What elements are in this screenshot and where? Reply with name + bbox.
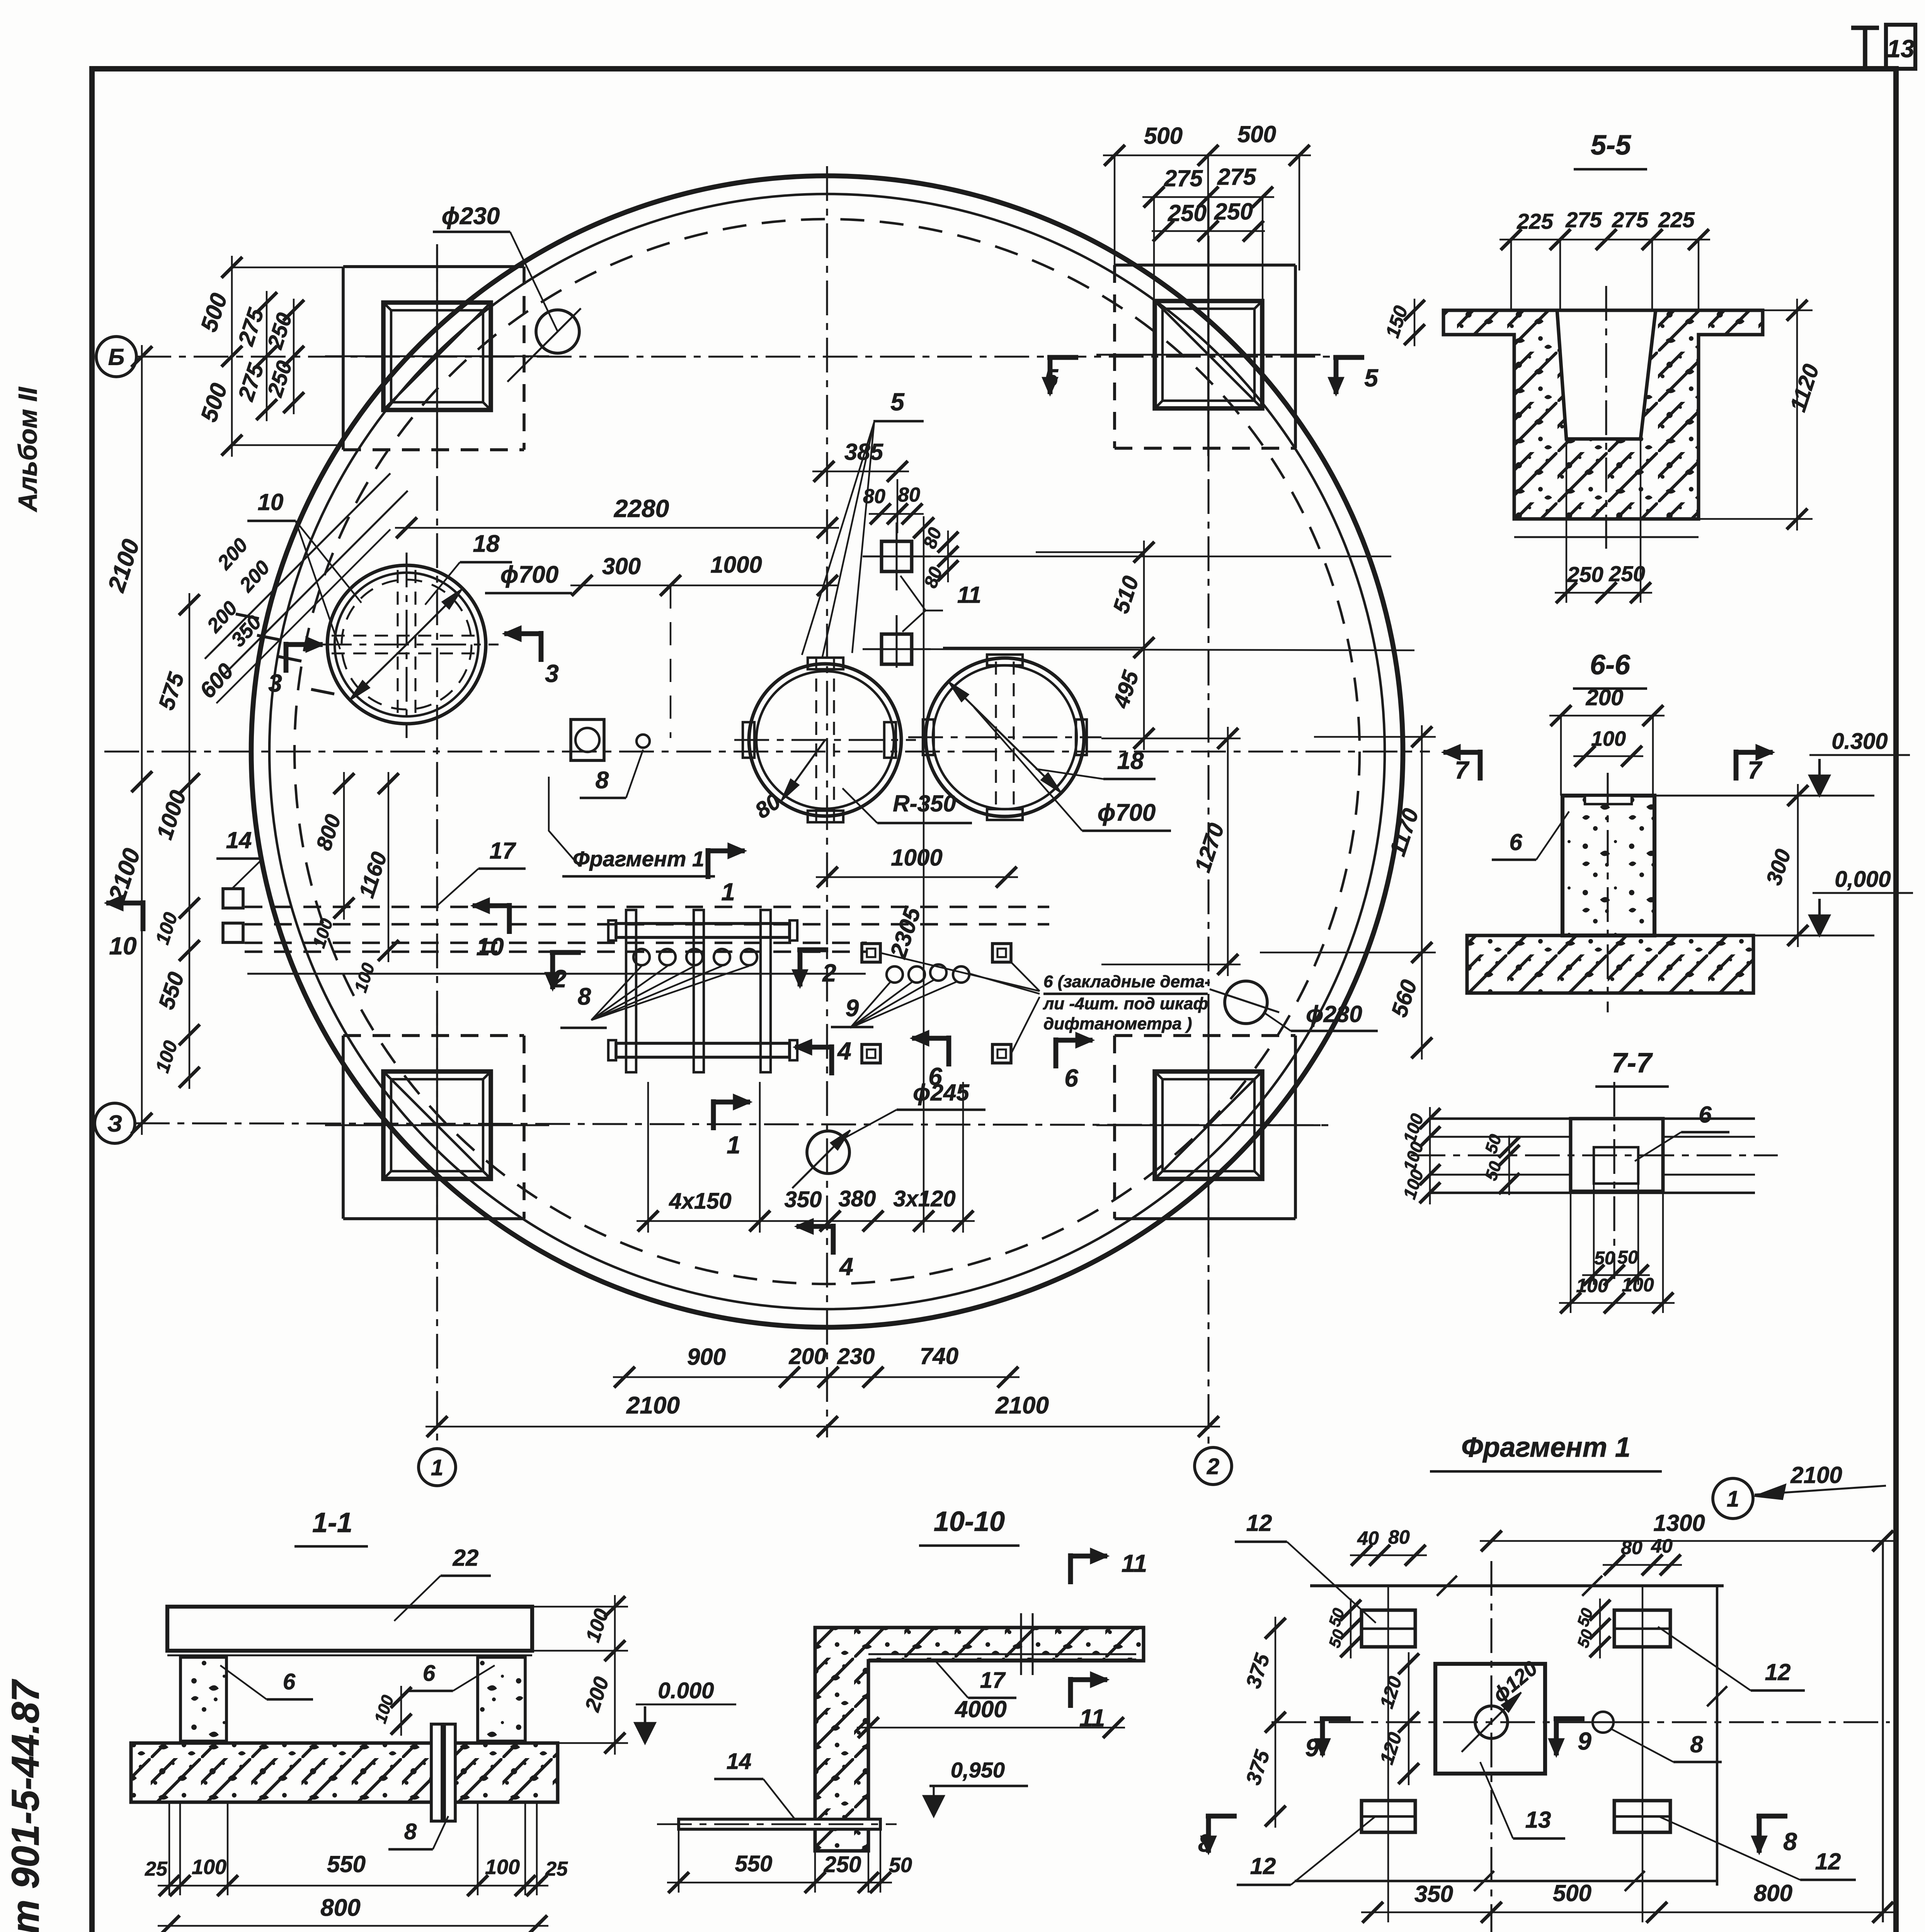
axis З line bbox=[135, 1123, 1333, 1125]
1-1 top slab bbox=[167, 1607, 532, 1651]
dim 510 495 vertical bbox=[1143, 541, 1145, 750]
bolt square 11 lower bbox=[882, 634, 912, 664]
dim 500 500 top pad bbox=[1103, 155, 1311, 156]
svg-text:4: 4 bbox=[837, 1037, 851, 1065]
fragment dim 120 120 rotated bbox=[1408, 1652, 1409, 1785]
svg-text:225: 225 bbox=[1658, 207, 1695, 232]
fragment embed plate top-left (12) bbox=[1362, 1610, 1415, 1647]
10-10 bottom dims 550 250 50 bbox=[667, 1882, 892, 1883]
svg-text:300: 300 bbox=[602, 553, 641, 579]
6-6 level 0.000 bbox=[1818, 899, 1821, 935]
embed circle d230 bottom-right bbox=[1225, 981, 1267, 1024]
svg-text:7: 7 bbox=[1455, 756, 1470, 784]
axis 1 line bbox=[436, 247, 438, 1447]
5-5 dim 250 250 bottom bbox=[1555, 592, 1652, 594]
svg-text:13: 13 bbox=[1887, 35, 1914, 63]
6-6 level 0.300 bbox=[1818, 759, 1821, 796]
svg-text:80: 80 bbox=[1621, 1537, 1642, 1558]
fragment slab top edge bbox=[1310, 1584, 1724, 1587]
cut flag 2 right bbox=[797, 947, 828, 952]
axis 1 circle bbox=[419, 1449, 456, 1486]
fragment slab right edge bbox=[1716, 1586, 1718, 1886]
svg-text:8: 8 bbox=[1783, 1828, 1797, 1855]
1-1 left pedestal concrete bbox=[180, 1657, 226, 1741]
plan vertical centerline bbox=[826, 166, 828, 1437]
5-5 dim 1120 right bbox=[1796, 299, 1798, 531]
svg-text:1: 1 bbox=[1727, 1486, 1739, 1512]
svg-text:ли -4шт. под шкаф: ли -4шт. под шкаф bbox=[1043, 994, 1208, 1013]
fragment centerline vertical bbox=[1490, 1561, 1492, 1932]
svg-text:500: 500 bbox=[1553, 1880, 1591, 1906]
svg-text:З: З bbox=[107, 1111, 123, 1137]
1-1 bottom dim chain bbox=[158, 1885, 548, 1886]
svg-text:25: 25 bbox=[145, 1858, 168, 1880]
sheet number box bbox=[1863, 27, 1867, 69]
cut flag 2 left bbox=[550, 950, 581, 955]
7-7 left dim 100x4 bbox=[1429, 1107, 1431, 1204]
dim 1170 560 vertical bbox=[1421, 725, 1423, 1060]
dim 275 275 top pad bbox=[1142, 196, 1274, 198]
svg-text:2100: 2100 bbox=[1790, 1462, 1842, 1488]
hidden channel strip B bbox=[245, 942, 867, 944]
svg-text:500: 500 bbox=[1237, 121, 1276, 147]
svg-text:7: 7 bbox=[1748, 756, 1763, 784]
cut flag 3 right bbox=[539, 631, 544, 662]
svg-text:10: 10 bbox=[476, 933, 504, 961]
svg-text:0.300: 0.300 bbox=[1831, 729, 1888, 754]
svg-text:6: 6 bbox=[1699, 1102, 1712, 1128]
svg-text:0.000: 0.000 bbox=[658, 1678, 714, 1703]
fragment cut flag 8 right bbox=[1756, 1814, 1787, 1819]
dim 80 80 vertical (rotated) bbox=[947, 531, 949, 582]
svg-text:100: 100 bbox=[1622, 1274, 1654, 1296]
axis 2 line bbox=[1207, 193, 1209, 1446]
dim 900 200 230 740 bbox=[613, 1376, 1020, 1378]
fragment dim 375 375 rotated bbox=[1275, 1617, 1276, 1828]
fragment dim 80 40 bbox=[1603, 1564, 1682, 1566]
svg-text:80: 80 bbox=[898, 484, 920, 506]
svg-text:50: 50 bbox=[1617, 1247, 1638, 1268]
5-5 bottom edge bbox=[1514, 536, 1699, 538]
svg-text:6 (закладные дета-: 6 (закладные дета- bbox=[1043, 972, 1210, 991]
10-10 wall and slab hatched bbox=[815, 1628, 1144, 1851]
fragment bottom dims 350 500 800 bbox=[1361, 1912, 1894, 1913]
svg-text:100: 100 bbox=[192, 1855, 226, 1879]
dim 250 250 top pad bbox=[1152, 230, 1265, 232]
7-7 outer plate rect bbox=[1571, 1119, 1663, 1191]
dim 2100 2100 axis B-Z bbox=[141, 345, 143, 1135]
axis Б circle bbox=[96, 337, 136, 377]
svg-text:740: 740 bbox=[920, 1343, 958, 1369]
svg-text:275: 275 bbox=[1217, 164, 1257, 190]
right circle tabs bbox=[987, 655, 1023, 665]
svg-text:275: 275 bbox=[1565, 207, 1602, 232]
fragment embed plate top-right (12) bbox=[1614, 1610, 1670, 1647]
axis Б line bbox=[136, 355, 1333, 357]
plan outer foundation circle bbox=[251, 176, 1403, 1327]
svg-text:1000: 1000 bbox=[891, 845, 942, 871]
svg-text:100: 100 bbox=[485, 1855, 520, 1879]
fragment small circle 8 bbox=[1593, 1712, 1614, 1733]
bolt plate squares (pos 6) group bbox=[862, 944, 880, 962]
dim 275 275 left pad bbox=[266, 291, 267, 421]
svg-text:2: 2 bbox=[822, 959, 836, 987]
svg-text:Фрагмент 1: Фрагмент 1 bbox=[573, 847, 704, 871]
fragment cut flag 9 right bbox=[1554, 1716, 1585, 1721]
svg-text:50: 50 bbox=[889, 1854, 912, 1877]
cut flag 6 left bbox=[946, 1036, 951, 1066]
svg-text:Альбом II: Альбом II bbox=[13, 386, 43, 513]
svg-text:40: 40 bbox=[1651, 1535, 1673, 1557]
svg-text:3: 3 bbox=[545, 660, 559, 687]
svg-text:1: 1 bbox=[431, 1455, 443, 1480]
fragment axis circle 1 with 2100 arrow bbox=[1713, 1478, 1753, 1519]
small hole circle bbox=[637, 735, 650, 748]
fragment right vertical edge bbox=[1882, 1541, 1884, 1922]
svg-text:10-10: 10-10 bbox=[934, 1506, 1005, 1537]
svg-text:1: 1 bbox=[721, 878, 735, 906]
svg-text:2: 2 bbox=[1207, 1454, 1219, 1479]
svg-text:6: 6 bbox=[1064, 1064, 1078, 1092]
bolt square 11 upper bbox=[882, 541, 912, 571]
7-7 dim 50 50 bottom bbox=[1582, 1274, 1650, 1276]
5-5 dim 150 left bbox=[1414, 299, 1415, 346]
svg-text:800: 800 bbox=[320, 1895, 360, 1921]
svg-text:6: 6 bbox=[283, 1669, 296, 1694]
dim 1000 (center to right circle) bbox=[816, 876, 1018, 878]
svg-text:550: 550 bbox=[735, 1851, 773, 1876]
right manhole circle d700 bbox=[926, 658, 1084, 816]
1-1 dim 800 bbox=[158, 1925, 548, 1927]
6-6 cut flag 7 right bbox=[1734, 750, 1739, 781]
svg-text:100: 100 bbox=[1591, 727, 1626, 750]
embed circle d245 bbox=[807, 1131, 849, 1173]
axis 2 circle bbox=[1195, 1447, 1232, 1485]
fragment cut flag 8 left bbox=[1206, 1814, 1237, 1819]
detail square with circle (pos 8) bbox=[571, 719, 604, 760]
dim 500 500 left pad (vertical) bbox=[231, 256, 233, 457]
6-6 cut flag 7 left bbox=[1478, 750, 1483, 781]
cut flag 1 bottom bbox=[711, 1099, 716, 1130]
7-7 dim 100 100 bottom bbox=[1559, 1302, 1675, 1304]
fragment embed plate bottom-left (12) bbox=[1362, 1801, 1415, 1832]
dim 1270 vertical bbox=[1227, 727, 1229, 976]
svg-text:275: 275 bbox=[1612, 207, 1648, 232]
10-10 dim 4000 bbox=[857, 1727, 1125, 1728]
leaders to note 6 bbox=[880, 953, 1040, 991]
svg-text:550: 550 bbox=[327, 1851, 366, 1877]
svg-text:6-6: 6-6 bbox=[1590, 650, 1631, 680]
1-1 level 0.000 bbox=[644, 1706, 646, 1743]
svg-text:13: 13 bbox=[1525, 1807, 1551, 1833]
svg-text:8: 8 bbox=[1690, 1731, 1703, 1757]
6-6 dim 200 bbox=[1549, 715, 1665, 716]
svg-text:380: 380 bbox=[839, 1186, 876, 1211]
svg-text:250: 250 bbox=[1214, 199, 1253, 224]
svg-text:2100: 2100 bbox=[995, 1392, 1049, 1419]
svg-text:0,000: 0,000 bbox=[1835, 867, 1891, 892]
svg-text:ϕ230: ϕ230 bbox=[442, 203, 500, 230]
svg-text:100: 100 bbox=[1576, 1275, 1608, 1296]
pad Fm3 (bottom-left) bbox=[343, 1034, 524, 1037]
cut flag 4 top bbox=[829, 1044, 834, 1075]
radial dim lines top-left bbox=[205, 473, 390, 659]
cut flag 5 right bbox=[1333, 355, 1364, 360]
svg-text:1000: 1000 bbox=[710, 552, 762, 578]
fragment central hole d120 bbox=[1475, 1706, 1508, 1738]
5-5 dim 225 275 275 225 bbox=[1499, 239, 1710, 240]
svg-text:18: 18 bbox=[473, 531, 500, 557]
pad Fm2 (top-right) bbox=[1115, 264, 1295, 267]
svg-text:385: 385 bbox=[844, 439, 884, 465]
cut flag 10 right bbox=[507, 903, 512, 934]
svg-text:2100: 2100 bbox=[626, 1392, 680, 1419]
svg-text:3x120: 3x120 bbox=[893, 1186, 955, 1211]
6-6 dim 300 bbox=[1797, 784, 1799, 947]
7-7 inner plate rect bbox=[1594, 1147, 1638, 1184]
svg-text:900: 900 bbox=[687, 1344, 726, 1370]
strip end caps (pos 14) bbox=[223, 889, 243, 908]
svg-text:25: 25 bbox=[545, 1858, 568, 1880]
cut flag 3 left bbox=[284, 642, 289, 673]
bolt circles group 9 bbox=[887, 966, 903, 983]
svg-text:1-1: 1-1 bbox=[312, 1507, 352, 1538]
svg-text:350: 350 bbox=[785, 1187, 822, 1212]
fragment dim 50 50 right rotated bbox=[1599, 1599, 1601, 1658]
10-10 cut flag 11 top bbox=[1068, 1553, 1073, 1584]
1-1 dim 100 small bbox=[400, 1686, 402, 1736]
10-10 base plate 14 bbox=[679, 1819, 880, 1829]
5-5 concrete body hatched bbox=[1443, 310, 1763, 519]
cut flag 6 right bbox=[1054, 1037, 1059, 1068]
left manhole circle d700 bbox=[327, 565, 486, 724]
svg-text:40: 40 bbox=[1357, 1527, 1379, 1549]
fragment embed plate bottom-right (12) bbox=[1614, 1801, 1670, 1832]
cut flag 10 left bbox=[141, 900, 146, 931]
dim 385 bbox=[812, 471, 909, 472]
dim 2280 bbox=[395, 527, 839, 529]
svg-text:250: 250 bbox=[824, 1852, 861, 1877]
svg-text:4000: 4000 bbox=[955, 1696, 1006, 1722]
dim 800 1160 (vertical inside plan) bbox=[343, 772, 345, 920]
svg-text:Типовой проект 901-5-44.87: Типовой проект 901-5-44.87 bbox=[4, 1679, 47, 1932]
svg-text:18: 18 bbox=[1117, 748, 1144, 774]
svg-text:8: 8 bbox=[596, 767, 609, 794]
svg-text:3: 3 bbox=[268, 669, 282, 697]
svg-text:12: 12 bbox=[1765, 1659, 1791, 1685]
dim 2100 2100 bottom bbox=[426, 1426, 1220, 1427]
thin line under strips bbox=[247, 973, 866, 975]
fragment dim 50 50 left rotated bbox=[1350, 1599, 1351, 1658]
svg-text:5-5: 5-5 bbox=[1591, 130, 1631, 161]
dim 2305 vertical bbox=[923, 516, 924, 1233]
6-6 top plate bbox=[1585, 796, 1632, 804]
svg-text:10: 10 bbox=[258, 489, 284, 515]
fragment centerline horizontal bbox=[1271, 1721, 1890, 1723]
svg-text:80: 80 bbox=[863, 485, 885, 508]
dim 300 1000 bbox=[570, 585, 839, 586]
dim 4x150 350 380 3x120 bbox=[637, 1220, 975, 1222]
center circle right tab bbox=[884, 722, 896, 758]
svg-text:350: 350 bbox=[1414, 1881, 1453, 1907]
svg-text:9: 9 bbox=[1305, 1734, 1319, 1762]
6-6 ground slab hatched bbox=[1467, 935, 1753, 993]
svg-text:6: 6 bbox=[423, 1661, 436, 1686]
10-10 break marks bbox=[1020, 1613, 1022, 1675]
svg-text:12: 12 bbox=[1246, 1510, 1272, 1536]
svg-text:ϕ230: ϕ230 bbox=[1306, 1001, 1362, 1027]
svg-text:ϕ700: ϕ700 bbox=[500, 561, 558, 588]
svg-text:230: 230 bbox=[837, 1344, 875, 1369]
hidden channel strip A (pos 14/17) bbox=[245, 906, 1049, 908]
svg-text:250: 250 bbox=[1567, 562, 1603, 587]
6-6 dim 100 bbox=[1573, 755, 1643, 757]
svg-text:250: 250 bbox=[1608, 561, 1645, 586]
svg-text:12: 12 bbox=[1250, 1853, 1276, 1879]
10-10 cut flag 11 bottom bbox=[1068, 1677, 1073, 1708]
svg-text:11-11: 11-11 bbox=[911, 1930, 975, 1932]
1-1 anchor plates 8 bbox=[431, 1724, 442, 1821]
svg-text:250: 250 bbox=[1168, 200, 1207, 226]
plan horizontal centerline bbox=[104, 750, 1430, 752]
cut flag 4 bottom bbox=[831, 1224, 836, 1255]
svg-text:11: 11 bbox=[957, 582, 981, 608]
svg-text:17: 17 bbox=[490, 838, 516, 864]
svg-text:275: 275 bbox=[1164, 165, 1203, 191]
center circle top tab bbox=[808, 658, 843, 669]
svg-text:Б: Б bbox=[108, 344, 124, 370]
svg-text:22: 22 bbox=[453, 1545, 479, 1571]
svg-text:9: 9 bbox=[846, 995, 859, 1022]
center circle bottom tab bbox=[808, 811, 843, 822]
svg-text:12: 12 bbox=[1815, 1849, 1841, 1874]
center pipe circle R350 bbox=[749, 664, 901, 816]
fragment central plate 13 bbox=[1435, 1664, 1545, 1774]
cut flag 1 top bbox=[706, 848, 711, 879]
svg-text:800: 800 bbox=[1754, 1880, 1792, 1906]
fragment dim 40 80 bbox=[1350, 1554, 1427, 1556]
fragment bottom edge bbox=[1295, 1880, 1717, 1882]
dim 250 250 left pad bbox=[293, 299, 294, 414]
svg-text:10: 10 bbox=[109, 932, 136, 960]
svg-text:5: 5 bbox=[890, 388, 905, 416]
6-6 pedestal concrete bbox=[1562, 796, 1654, 935]
svg-text:9: 9 bbox=[1578, 1727, 1591, 1755]
pad Fm4 (bottom-right) bbox=[1115, 1034, 1295, 1037]
svg-text:7-7: 7-7 bbox=[1612, 1048, 1653, 1078]
cut flag 5 left bbox=[1047, 355, 1078, 360]
1-1 right pedestal concrete bbox=[478, 1657, 525, 1741]
axis З circle bbox=[95, 1103, 135, 1143]
svg-text:11: 11 bbox=[1122, 1549, 1147, 1577]
svg-text:2280: 2280 bbox=[614, 495, 669, 522]
svg-text:6: 6 bbox=[928, 1063, 942, 1090]
svg-text:4: 4 bbox=[839, 1253, 853, 1281]
plan inner edge circle bbox=[269, 194, 1385, 1309]
svg-text:Фрагмент 1: Фрагмент 1 bbox=[1461, 1432, 1631, 1463]
10-10 slab liner 17 bbox=[868, 1653, 1136, 1655]
center circle left tab bbox=[743, 722, 754, 758]
svg-text:5: 5 bbox=[1044, 364, 1059, 392]
thin lines from bolt squares bbox=[912, 556, 1391, 557]
1-1 ground slab hatched bbox=[131, 1743, 558, 1802]
fragment cut flag 9 left bbox=[1320, 1716, 1351, 1721]
svg-text:дифтанометра ): дифтанометра ) bbox=[1043, 1014, 1192, 1033]
svg-text:8: 8 bbox=[1198, 1829, 1212, 1857]
svg-text:8: 8 bbox=[578, 983, 591, 1010]
svg-text:200: 200 bbox=[789, 1344, 827, 1369]
svg-text:ϕ700: ϕ700 bbox=[1098, 799, 1156, 826]
svg-text:17: 17 bbox=[980, 1668, 1006, 1693]
svg-text:6: 6 bbox=[1509, 829, 1522, 855]
svg-text:50: 50 bbox=[1594, 1248, 1615, 1269]
fragment dim 1300 bbox=[1480, 1540, 1894, 1542]
svg-text:8: 8 bbox=[404, 1819, 417, 1844]
fragment plate column lines bbox=[1387, 1586, 1389, 1922]
dim 80 80 horizontal bbox=[869, 513, 924, 515]
svg-text:5: 5 bbox=[1364, 364, 1379, 392]
svg-text:200: 200 bbox=[1586, 685, 1624, 710]
svg-text:14: 14 bbox=[226, 827, 252, 853]
7-7 centerlines bbox=[1613, 1082, 1615, 1279]
svg-text:1300: 1300 bbox=[1653, 1510, 1705, 1536]
5-5 centerline bbox=[1605, 286, 1607, 549]
svg-text:0,950: 0,950 bbox=[951, 1758, 1005, 1782]
7-7 dim 50 50 rotated bbox=[1508, 1136, 1510, 1195]
ladder bolt circles bbox=[633, 949, 650, 965]
svg-text:2: 2 bbox=[552, 965, 567, 993]
5-5 cavity outline emphasis bbox=[1557, 310, 1566, 439]
embed circle d230 top-left bbox=[536, 310, 579, 353]
svg-text:500: 500 bbox=[1144, 123, 1183, 149]
left chain 575/1000/100/550/100 bbox=[189, 593, 190, 1089]
ladder frame detail (pos 8) bbox=[616, 923, 790, 937]
1-1 right dims 100 200 bbox=[614, 1595, 616, 1755]
svg-text:14: 14 bbox=[727, 1749, 752, 1774]
svg-text:80: 80 bbox=[1388, 1526, 1410, 1548]
pad Fm1 (top-left) bbox=[343, 265, 524, 268]
plan hidden circle (dashed) bbox=[294, 219, 1360, 1284]
svg-text:1: 1 bbox=[727, 1131, 740, 1159]
6-6 centerline bbox=[1607, 773, 1608, 1012]
svg-text:4x150: 4x150 bbox=[669, 1189, 731, 1214]
7-7 slab edge lines bbox=[1429, 1117, 1755, 1120]
svg-text:225: 225 bbox=[1517, 209, 1553, 233]
